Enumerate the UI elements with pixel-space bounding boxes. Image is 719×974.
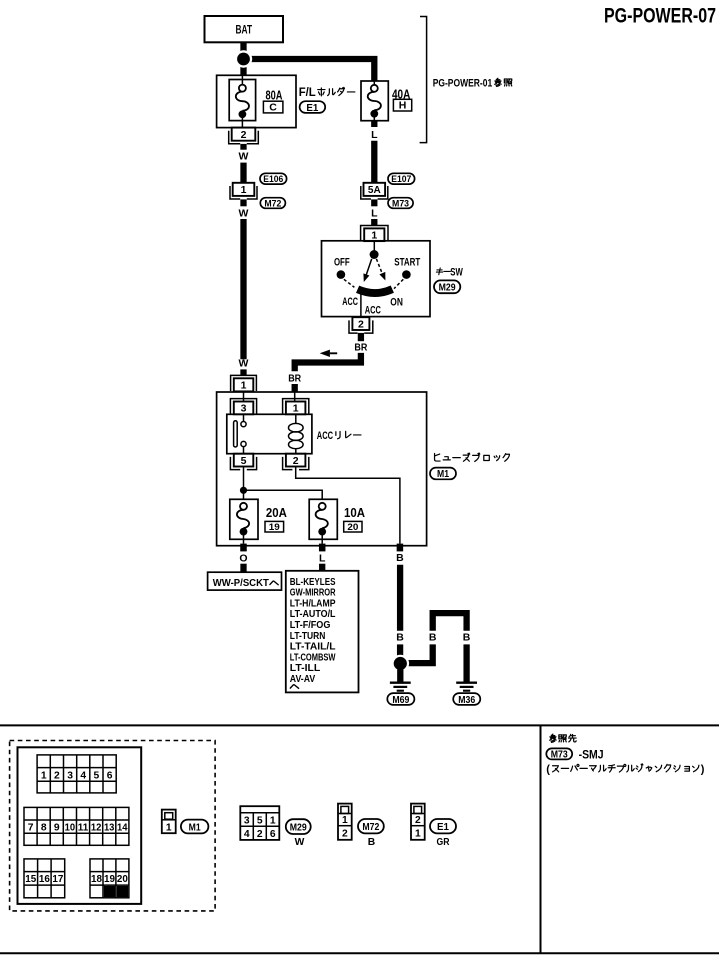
svg-text:10: 10 [65, 823, 76, 834]
fuse layout grid 18-20 [90, 859, 129, 898]
relay pin 3 [230, 399, 256, 415]
node junction dot at BAT feed [235, 50, 252, 67]
svg-text:M73: M73 [551, 750, 568, 761]
value label 80A [266, 88, 283, 103]
svg-text:L: L [371, 129, 378, 141]
value label 20A [266, 505, 288, 520]
svg-text:2: 2 [241, 129, 247, 141]
svg-text:4: 4 [80, 770, 86, 781]
destination list box [286, 571, 359, 693]
label super multiple junction [546, 763, 705, 775]
svg-text:1: 1 [415, 828, 421, 839]
svg-text:2: 2 [415, 815, 421, 826]
svg-text:B: B [396, 632, 404, 644]
svg-text:M73: M73 [392, 198, 409, 209]
svg-text:4: 4 [244, 829, 250, 840]
reference bracket PG-POWER-01 [420, 17, 427, 143]
wire junction to ground M69 [397, 670, 403, 682]
wire W stub into fuse block pin 1 [240, 369, 246, 375]
destination suffix he [290, 685, 298, 689]
svg-text:L: L [371, 207, 378, 219]
svg-text:19: 19 [269, 522, 280, 533]
wire color label B [429, 632, 437, 644]
wire BAT to junction (thick) [240, 42, 246, 75]
svg-text:PG-POWER-01: PG-POWER-01 [433, 77, 493, 89]
fuse 20 (10A) [309, 499, 337, 543]
svg-text:13: 13 [104, 823, 115, 834]
key switch rotor dot [370, 250, 379, 259]
destination text LT-TURN [290, 631, 326, 642]
wire BR stub into fuse block [292, 384, 298, 392]
wire BR to relay pin 1 [294, 392, 296, 402]
node junction dot fuse feed [240, 487, 247, 494]
dashed arrow rotor to ON [376, 259, 385, 281]
wire stub below F/L pin 2 [240, 144, 246, 150]
wire relay pin2 to B output [296, 467, 400, 544]
svg-text:80A: 80A [266, 88, 283, 103]
svg-text:20: 20 [347, 522, 358, 533]
ACC relay box [227, 414, 312, 453]
svg-text:B: B [368, 837, 375, 848]
wire L to connector E107 [371, 141, 377, 183]
fuse layout grid 1-6 [37, 755, 116, 793]
svg-text:5: 5 [257, 816, 263, 827]
svg-text:6: 6 [107, 770, 113, 781]
wire color label L [319, 552, 326, 564]
key switch box [322, 241, 431, 317]
destination text LT-TAIL/L [290, 642, 336, 653]
wire stub below E107 [371, 199, 377, 206]
svg-text:(: ( [546, 763, 550, 775]
node ground junction dot [392, 655, 410, 673]
svg-text:2: 2 [257, 829, 263, 840]
wire stub L output [319, 544, 326, 552]
svg-text:1: 1 [41, 770, 47, 781]
connector oval M73 (footer) [546, 748, 572, 760]
label key switch (kii SW) [436, 266, 463, 278]
key position label ON [390, 297, 403, 309]
wire BR bend to left [295, 353, 361, 371]
svg-text:14: 14 [117, 823, 128, 834]
destination text LT-COMBSW [290, 652, 336, 663]
connector oval M73 [388, 198, 413, 210]
svg-text:B: B [396, 552, 404, 564]
footer label sanshou-saki (reference) [550, 734, 576, 742]
svg-text:8: 8 [41, 823, 47, 834]
svg-text:LT-TURN: LT-TURN [290, 631, 326, 642]
svg-text:L: L [319, 552, 326, 564]
svg-text:E1: E1 [437, 821, 449, 833]
svg-text:W: W [239, 151, 249, 163]
wire W to connector E106 [240, 163, 246, 183]
svg-text:19: 19 [104, 874, 115, 885]
svg-text:9: 9 [54, 823, 60, 834]
key switch pin 2 [349, 317, 373, 333]
svg-text:BL-KEYLES: BL-KEYLES [290, 577, 336, 588]
svg-text:M1: M1 [437, 468, 449, 480]
fuse layout grid 15-17 [24, 859, 65, 898]
connector oval M1 (fuse block) [430, 468, 456, 481]
wire BR stub below key pin 2 [358, 333, 364, 341]
connector oval M72 (footer) [358, 819, 384, 833]
relay contact bar [234, 421, 238, 447]
wire color label W [239, 207, 249, 219]
svg-text:1: 1 [241, 184, 247, 196]
wire relay pin5 to fuses [243, 467, 245, 500]
wire B to ground M36 [463, 644, 469, 681]
fuse letter C box [263, 101, 283, 113]
connector oval E1 [300, 101, 326, 114]
key wiper thick arc [358, 289, 393, 293]
svg-text:1: 1 [342, 815, 348, 826]
wire color label BR [354, 341, 367, 353]
svg-text:6: 6 [270, 829, 276, 840]
connector oval E107 [388, 173, 415, 185]
connector E106/M72 pin 1 [230, 183, 257, 199]
svg-text:1: 1 [241, 380, 247, 392]
svg-text:E1: E1 [306, 102, 318, 114]
svg-text:M29: M29 [439, 282, 456, 294]
relay pin 2 [283, 454, 309, 470]
connector oval M29 (footer) [286, 819, 311, 834]
connector oval M1 (footer) [181, 820, 209, 834]
wire O to WW-P/SCKT [240, 564, 246, 573]
fuse block connector icon M1 [162, 810, 176, 834]
relay pin 1 [283, 399, 309, 415]
svg-text:2: 2 [358, 318, 364, 330]
wire stub below 40A fuse [371, 121, 377, 127]
wire trunk junction to 40A fuse (thick) [244, 59, 375, 81]
svg-text:1: 1 [293, 403, 299, 415]
destination box WW-P/SCKT [208, 572, 282, 590]
destination text LT-AUTO/L [290, 609, 336, 620]
svg-text:B: B [463, 632, 471, 644]
svg-text:5: 5 [94, 770, 100, 781]
label fuse block (hyuuzu burokku) [435, 453, 510, 461]
svg-text:18: 18 [91, 874, 102, 885]
dashed link START dot to arc [394, 279, 403, 288]
wire color label O [239, 552, 247, 564]
svg-text:BAT: BAT [236, 22, 253, 36]
svg-text:START: START [394, 256, 420, 268]
svg-text:GR: GR [437, 837, 450, 848]
wire branch to fuse 20 [244, 490, 323, 499]
ground oval M36 [453, 693, 480, 706]
connector oval E1 (footer) [430, 819, 456, 833]
connector oval M72 [260, 198, 285, 210]
svg-text:ACC: ACC [317, 430, 333, 442]
wire color label L [371, 207, 378, 219]
wire color label B [463, 632, 471, 644]
svg-text:1: 1 [166, 822, 172, 833]
svg-text:5A: 5A [368, 185, 381, 196]
label -SMJ [579, 750, 604, 762]
svg-text:M36: M36 [458, 694, 475, 706]
fuse 19 (20A) [230, 499, 258, 543]
svg-text:M72: M72 [264, 198, 281, 209]
svg-text:2: 2 [293, 455, 299, 467]
key position label OFF [334, 256, 350, 268]
fuse number 20 box [344, 521, 362, 533]
svg-text:OFF: OFF [334, 256, 350, 268]
connector icon M29 (footer) [240, 806, 279, 840]
current direction arrow [320, 350, 338, 357]
svg-text:LT-TAIL/L: LT-TAIL/L [290, 642, 336, 653]
fuse letter H box [393, 99, 411, 111]
fuse block box M1 [217, 392, 427, 546]
wire B down [397, 565, 403, 631]
wire color label BR at fuse block [288, 372, 301, 384]
svg-text:20: 20 [117, 874, 128, 885]
svg-text:5: 5 [241, 455, 247, 467]
svg-text:M1: M1 [189, 821, 201, 833]
svg-text:O: O [239, 552, 247, 564]
destination text GW-MIRROR [290, 588, 336, 599]
wire B to ground junction [397, 644, 403, 658]
key position label START [394, 256, 420, 268]
svg-text:AV-AV: AV-AV [290, 674, 315, 685]
connector oval E106 [260, 173, 287, 185]
wire pin1 to relay pin 3 [243, 391, 245, 401]
svg-text:WW-P/SCKT: WW-P/SCKT [213, 578, 270, 589]
svg-text:PG-POWER-07: PG-POWER-07 [604, 4, 716, 28]
wire W long run to fuse block [240, 219, 246, 359]
svg-text:ACC: ACC [342, 296, 358, 308]
wire stub B output [397, 544, 404, 552]
svg-text:LT-ILL: LT-ILL [290, 663, 321, 674]
svg-text:15: 15 [25, 874, 36, 885]
solid arrow rotor to ACC [363, 259, 371, 282]
svg-text:LT-AUTO/L: LT-AUTO/L [290, 609, 336, 620]
wire ground branch right [404, 644, 433, 663]
fuse layout grid 7-14 [24, 807, 129, 845]
svg-text:BR: BR [288, 372, 301, 384]
svg-text:12: 12 [91, 823, 102, 834]
destination text AV-AV [290, 674, 315, 685]
svg-text:W: W [295, 837, 305, 848]
key position label ACC [342, 296, 358, 308]
svg-text:M29: M29 [290, 821, 307, 833]
svg-text:LT-COMBSW: LT-COMBSW [290, 652, 336, 663]
relay contact terminals [241, 414, 246, 453]
svg-text:H: H [399, 100, 407, 112]
svg-text:11: 11 [78, 823, 89, 834]
key contact dot OFF [337, 270, 346, 279]
svg-text:3: 3 [67, 770, 73, 781]
svg-text:SW: SW [450, 266, 463, 278]
wire color label L [371, 129, 378, 141]
label F/L holder (F/L horudaa) [299, 87, 355, 99]
connector icon E1 (footer) [411, 804, 425, 840]
fusible link 80A C symbol [229, 75, 255, 127]
wire color label W at fuse block [239, 358, 249, 370]
svg-text:C: C [269, 102, 277, 114]
svg-text:W: W [239, 358, 249, 370]
fuse 40A H [361, 81, 388, 121]
wire ground branch over to M36 [433, 613, 467, 631]
value label 40A [392, 86, 411, 101]
fuse block layout inner box [18, 747, 142, 904]
svg-text:10A: 10A [344, 505, 366, 520]
separator line bottom of footer [0, 952, 719, 954]
label PG-POWER-01 sanshou [433, 77, 512, 89]
svg-text:E107: E107 [391, 174, 411, 185]
wire color W under M29 [295, 837, 305, 848]
connector E107/M73 pin 5A [361, 183, 388, 199]
wire stub below E106 [240, 199, 246, 206]
value label 10A [344, 505, 366, 520]
fusible link holder outer box E1 [217, 75, 296, 127]
pin 2 of F/L holder [229, 128, 259, 144]
svg-text:2: 2 [54, 770, 60, 781]
key switch pin 1 [361, 226, 388, 242]
svg-text:BR: BR [354, 341, 367, 353]
connector oval M29 (key switch) [434, 280, 460, 293]
svg-text:LT-F/FOG: LT-F/FOG [290, 620, 331, 631]
svg-text:M69: M69 [392, 694, 409, 706]
destination text LT-ILL [290, 663, 321, 674]
fuse number 19 box [265, 521, 284, 533]
separator line top of footer [0, 724, 719, 726]
svg-text:20A: 20A [266, 505, 288, 520]
wire stub O output [240, 544, 247, 552]
relay coil [289, 414, 304, 453]
svg-text:1: 1 [371, 229, 377, 241]
svg-text:M72: M72 [362, 821, 379, 833]
svg-text:1: 1 [270, 816, 276, 827]
svg-text:2: 2 [342, 828, 348, 839]
destination text LT-F/FOG [290, 620, 331, 631]
fuse block layout dashed frame [10, 741, 216, 911]
svg-text:W: W [239, 207, 249, 219]
destination text BL-KEYLES [290, 577, 336, 588]
ground symbol M69 [390, 683, 411, 691]
ground oval M69 [387, 693, 414, 706]
wire color GR under E1 [437, 837, 450, 848]
svg-text:3: 3 [244, 816, 250, 827]
dashed link OFF dot to arc [344, 279, 355, 287]
connector icon M72 (footer) [338, 804, 352, 840]
wire L to destination list [319, 564, 325, 571]
title PG-POWER-07 [604, 4, 716, 28]
key contact dot START [402, 270, 411, 279]
svg-text:7: 7 [28, 823, 34, 834]
svg-text:ACC: ACC [365, 304, 381, 316]
svg-text:-SMJ: -SMJ [579, 750, 604, 762]
svg-text:B: B [429, 632, 437, 644]
ground symbol M36 [456, 683, 477, 691]
svg-text:): ) [701, 763, 705, 775]
svg-text:LT-H/LAMP: LT-H/LAMP [290, 599, 336, 610]
wire color B under M72 [368, 837, 375, 848]
wire color label B [396, 552, 404, 564]
svg-text:ON: ON [390, 297, 403, 309]
svg-text:GW-MIRROR: GW-MIRROR [290, 588, 336, 599]
key switch internal wire pin1 to rotor [373, 241, 375, 251]
svg-text:F/L: F/L [299, 87, 316, 99]
footer divider vertical [540, 725, 542, 953]
battery box BAT [205, 16, 284, 42]
svg-text:17: 17 [52, 874, 63, 885]
wire color label B [396, 632, 404, 644]
wire L to key switch [371, 219, 377, 226]
svg-text:E106: E106 [263, 174, 283, 185]
wire color label W [239, 151, 249, 163]
terminal label ACC above pin 2 [365, 304, 381, 316]
fuse block pin 1 (W input) [231, 375, 257, 391]
svg-text:16: 16 [39, 874, 50, 885]
destination text LT-H/LAMP [290, 599, 336, 610]
relay pin 5 [230, 454, 256, 470]
key switch internal wire to pin 2 [360, 295, 362, 318]
svg-text:3: 3 [241, 403, 247, 415]
label ACC relay (ACC riree) [317, 430, 361, 442]
